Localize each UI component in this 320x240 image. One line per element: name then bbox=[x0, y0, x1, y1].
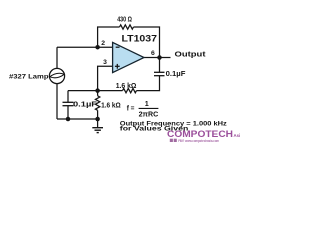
svg-text:Output: Output bbox=[175, 50, 207, 59]
svg-text:COMPOTECH: COMPOTECH bbox=[167, 129, 233, 139]
svg-text:3: 3 bbox=[103, 59, 107, 66]
svg-text:0.1µF: 0.1µF bbox=[73, 100, 98, 109]
svg-text:1.6 kΩ: 1.6 kΩ bbox=[116, 81, 137, 90]
svg-text:1.6 kΩ: 1.6 kΩ bbox=[101, 100, 121, 109]
svg-text:0.1µF: 0.1µF bbox=[166, 69, 186, 78]
svg-text:f =: f = bbox=[127, 103, 135, 112]
svg-text:LT1037: LT1037 bbox=[122, 33, 158, 44]
svg-text:430 Ω: 430 Ω bbox=[117, 16, 132, 23]
svg-text:6: 6 bbox=[151, 50, 155, 57]
svg-text:1: 1 bbox=[145, 99, 149, 108]
svg-text:FBI? www.compotechasia.com: FBI? www.compotechasia.com bbox=[178, 139, 219, 143]
svg-text:2πRC: 2πRC bbox=[139, 110, 159, 119]
svg-text:Asia: Asia bbox=[234, 133, 241, 138]
svg-text:#327 Lamp: #327 Lamp bbox=[9, 73, 49, 80]
svg-text:2: 2 bbox=[101, 40, 105, 47]
